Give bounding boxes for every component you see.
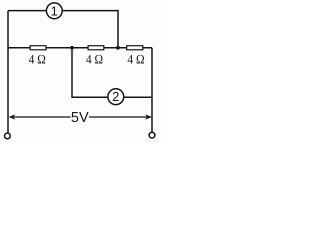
svg-text:2: 2 [112,89,119,104]
svg-text:4 Ω: 4 Ω [86,52,103,67]
svg-text:5V: 5V [71,110,89,126]
svg-text:4 Ω: 4 Ω [127,52,144,67]
svg-text:1: 1 [51,3,58,18]
svg-text:4 Ω: 4 Ω [29,52,46,67]
